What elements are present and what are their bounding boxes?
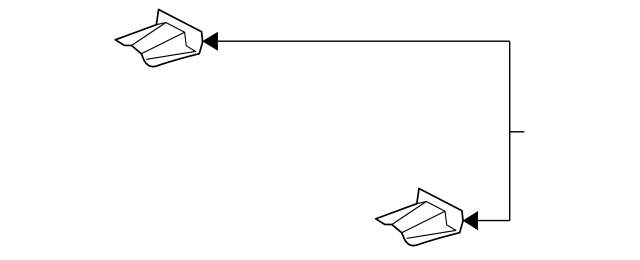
leader line top horizontal	[218, 40, 510, 42]
arrowhead to upper part	[202, 32, 218, 51]
part clip upper (inner edges)	[132, 23, 196, 60]
part clip lower (inner edges)	[392, 202, 456, 239]
part clip lower (outline)	[376, 189, 463, 246]
leader line right vertical	[509, 41, 511, 220]
arrowhead to lower part	[463, 211, 478, 230]
leader line bottom horizontal	[478, 220, 510, 222]
tick mark on vertical leader	[510, 131, 525, 133]
part clip upper (outline)	[115, 10, 202, 67]
